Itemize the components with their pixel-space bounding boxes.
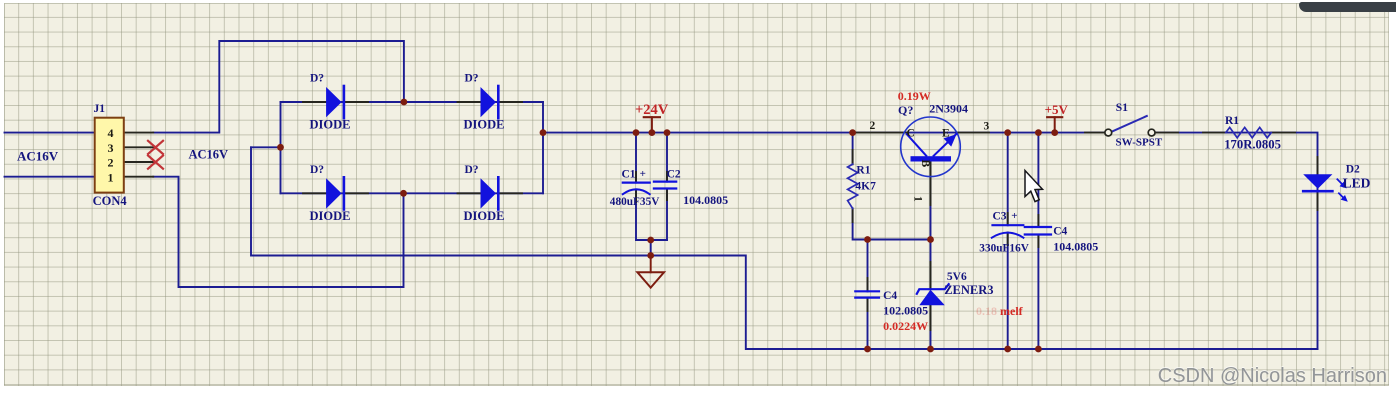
svg-text:C3: C3 [993,211,1007,223]
pin D3 cathode [345,192,368,194]
svg-text:5V6: 5V6 [947,271,967,283]
svg-text:480uF35V: 480uF35V [610,196,660,208]
pin D3 anode [303,192,326,194]
svg-text:LED: LED [1343,176,1371,191]
pin C4b bottom [1037,235,1039,248]
svg-text:D?: D? [465,73,479,85]
pin C2 top [666,172,668,182]
node C4b bottom rail [1035,346,1042,353]
pin C1 top [635,172,637,183]
resistor R1b zigzag [1226,127,1271,137]
node C3 bottom rail [1004,346,1011,353]
diode D4 triangle [481,178,497,208]
svg-text:C4: C4 [1053,226,1067,238]
svg-text:0.19W: 0.19W [898,89,931,103]
wire zener top [930,240,932,289]
wire C1 bottom [635,191,637,240]
pin zener top [930,262,932,289]
node +24V rail [649,129,656,136]
svg-text:S1: S1 [1116,102,1128,114]
diode D3 bar [343,177,346,209]
svg-text:Q?: Q? [898,103,913,117]
capacitor C3 curved plate [992,233,1024,238]
wire C3 branch [1007,133,1009,226]
pin D1 anode [303,101,326,103]
svg-text:D?: D? [465,164,479,176]
pin zener bottom [930,305,932,330]
transistor Q1 circle [901,117,961,177]
node C3 rail [1004,129,1011,136]
no-connect X pin3 [148,141,163,154]
mouse cursor [1025,171,1043,202]
svg-text:B: B [919,160,931,168]
wire zener bottom [930,305,932,349]
svg-text:1: 1 [912,196,924,202]
node zener base [927,236,934,243]
svg-text:melf: melf [1000,304,1024,318]
wire R1 bottom to base node [853,208,931,239]
svg-text:0.18: 0.18 [976,304,997,318]
pin C2 bottom [666,189,668,201]
node zener bottom rail [927,346,934,353]
pin Q1 collector [853,132,907,134]
capacitor C1 top plate [623,182,650,184]
svg-text:330uF16V: 330uF16V [979,243,1029,255]
wire R1 top branch [852,133,854,165]
node +5V rail [1051,129,1058,136]
power +24V stem [651,117,653,132]
no-connect X pin2 [148,156,163,169]
watermark [1158,365,1387,388]
pin C4a top [867,278,869,291]
LED D2 light arrow 2 [1339,193,1345,199]
wire C1C2 bottom join [636,239,667,241]
switch S1 lever [1112,116,1147,132]
power +24V bar [644,116,660,118]
wire base lead down [930,162,932,240]
node bridge output [540,129,547,136]
node C4b rail [1035,129,1042,136]
pin R1b right [1271,132,1295,134]
svg-text:R1: R1 [1225,115,1239,127]
node left bridge mid [277,144,284,151]
svg-text:DIODE: DIODE [310,209,351,223]
power +5V stem [1054,117,1056,132]
connector J1 body [95,118,124,193]
pin D2 cathode [499,101,522,103]
svg-text:104.0805: 104.0805 [683,193,728,207]
node bottom bridge junction [400,190,407,197]
ground stem [650,256,652,273]
svg-text:C1: C1 [622,168,636,180]
pin C3 top [1007,213,1009,225]
pin J1-2 [124,161,153,163]
capacitor C1 curved plate [623,189,650,194]
svg-text:DIODE: DIODE [310,118,351,132]
wire bridge left vertical [280,102,282,193]
svg-text:2N3904: 2N3904 [929,102,968,116]
wire bridge right vertical [542,102,544,193]
svg-text:+5V: +5V [1045,102,1069,117]
zener DZ triangle [919,290,945,306]
pin D4 anode [458,192,481,194]
svg-text:2: 2 [870,120,876,132]
pin R1b left [1203,132,1226,134]
pin R1a bottom [852,208,854,222]
switch S1 right contact [1148,129,1155,136]
wire rail after switch [1155,133,1317,349]
diode D3 triangle [326,178,342,208]
svg-text:102.0805: 102.0805 [883,303,928,317]
diode D2 triangle [481,87,497,117]
node AC16V stub [251,146,281,148]
svg-text:D?: D? [310,164,324,176]
node C4a base [864,236,871,243]
pin C3 bottom [1007,233,1009,246]
svg-text:D?: D? [310,73,324,85]
svg-text:+: + [640,168,646,180]
pin J1-1 [124,176,153,178]
pin LED top [1317,157,1319,174]
pin Q1 emitter [957,132,990,134]
svg-text:C4: C4 [883,290,897,302]
pin C1 bottom [635,191,637,202]
wire C4b branch [1037,133,1039,227]
diode D1 bar [343,86,346,118]
node C4a bottom rail [864,346,871,353]
svg-text:4: 4 [108,126,114,140]
node ground tap [647,252,654,259]
pin R1a top [852,150,854,164]
capacitor C4b plates [1025,227,1051,235]
wire J1 pin4 to top loop [153,41,404,133]
capacitor C2 plates [654,182,676,189]
wire +24V rail [543,132,1104,134]
svg-text:AC16V: AC16V [17,148,59,163]
svg-text:AC16V: AC16V [189,148,229,162]
wire C4a branch [867,240,869,292]
node top bridge junction [401,99,408,106]
svg-text:0.0224W: 0.0224W [883,319,928,333]
transistor Q1 emitter diagonal [934,134,957,156]
node C1 rail [633,129,640,136]
LED D2 triangle [1303,174,1332,189]
svg-text:3: 3 [108,141,114,155]
svg-text:E: E [942,128,950,140]
pin J1-3 [124,146,153,148]
pin C4b top [1037,215,1039,227]
pin C4a bottom [867,298,869,311]
LED D2 light arrow 1 [1337,179,1344,186]
wire C4a bottom [867,298,869,349]
zener DZ bar [917,284,949,294]
wire AC input left to J1 pin1 [5,176,95,178]
svg-text:C2: C2 [667,168,681,180]
pin D4 cathode [499,192,522,194]
svg-text:+: + [1011,210,1017,222]
pin J1-4 [124,132,153,134]
svg-text:ZENER3: ZENER3 [944,283,993,297]
svg-text:4K7: 4K7 [855,180,876,192]
pin D2 anode [458,101,481,103]
wire AC input left to J1 pin4 [5,132,95,134]
transistor Q1 emitter arrow [944,134,957,146]
svg-text:DIODE: DIODE [464,209,505,223]
pin S1 right [1155,132,1178,134]
diode D2 bar [497,86,500,118]
video toolbar corner [1299,2,1396,12]
svg-text:D2: D2 [1346,163,1360,175]
wire J1 pin1 loop to bottom bridge node [153,177,403,287]
svg-text:DIODE: DIODE [464,118,505,132]
LED D2 bar [1303,190,1332,193]
wire C3 bottom [1007,233,1009,350]
svg-text:R1: R1 [856,164,870,176]
svg-text:CON4: CON4 [93,194,128,208]
pin Q1 base [930,162,932,206]
transistor Q1 base bar [911,156,952,161]
svg-text:SW-SPST: SW-SPST [1116,136,1163,148]
svg-text:1: 1 [108,170,114,184]
ground [637,272,664,287]
capacitor C4a plates [855,291,879,297]
wire C2 top [666,133,668,182]
node C1C2 bottom [647,237,654,244]
node C2 rail [664,129,671,136]
wire C4b bottom [1037,235,1039,350]
power +5V bar [1047,116,1062,118]
diode D4 bar [497,177,500,209]
pin S1 left [1085,132,1104,134]
switch S1 left contact [1105,129,1112,136]
svg-text:104.0805: 104.0805 [1053,239,1098,253]
svg-text:C: C [907,128,915,140]
node R1a rail [849,129,856,136]
wire bridge bottom row [281,192,544,194]
pin D1 cathode [345,101,368,103]
svg-text:170R.0805: 170R.0805 [1224,137,1281,151]
wire bridge top row [281,101,544,103]
diode D1 triangle [326,87,342,117]
wire C2 bottom [666,189,668,241]
svg-text:2: 2 [108,156,114,170]
pin LED bottom [1317,192,1319,210]
wire to ground stem [650,240,652,256]
wire AC return down and across [251,147,1318,349]
wire C1 top [635,133,637,183]
transistor Q1 collector diagonal [907,134,927,156]
svg-text:J1: J1 [94,103,106,115]
capacitor C3 top plate [993,224,1024,226]
svg-text:+24V: +24V [635,102,669,118]
svg-text:3: 3 [984,121,990,133]
resistor R1a zigzag [848,164,858,208]
